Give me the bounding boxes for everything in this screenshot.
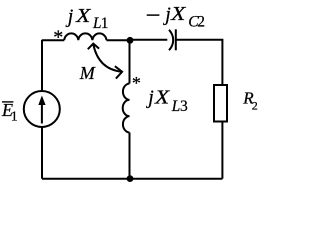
- polarity dot marker (asterisk) for L3: [132, 73, 141, 93]
- svg-text:M: M: [79, 63, 96, 83]
- label jXL3: [145, 87, 188, 116]
- inductor L1: [64, 33, 106, 40]
- mutual coupling arrow M: [88, 44, 122, 79]
- inductor L3: [123, 84, 130, 133]
- label E1: [1, 100, 18, 123]
- wire from capacitor to top-right corner and down to resistor: [176, 40, 223, 85]
- wire from top node down to L3: [129, 40, 131, 84]
- svg-text:X: X: [170, 3, 186, 25]
- svg-text:X: X: [154, 87, 170, 109]
- wire from L1 to top node: [107, 39, 131, 41]
- label jXL1: [65, 5, 109, 32]
- svg-text:3: 3: [180, 98, 188, 115]
- svg-text:*: *: [53, 26, 63, 48]
- capacitor C2: [169, 29, 176, 50]
- svg-text:2: 2: [197, 14, 205, 31]
- bottom wire: [42, 178, 222, 180]
- wire from resistor down to bottom-right corner: [221, 122, 223, 179]
- resistor R2: [214, 85, 227, 122]
- node junction top: [127, 37, 134, 44]
- svg-text:L: L: [171, 98, 180, 115]
- wire from top-left corner down to source: [41, 40, 43, 91]
- svg-text:*: *: [132, 73, 141, 93]
- voltage source E1: [24, 91, 60, 127]
- svg-text:1: 1: [101, 15, 109, 32]
- wire from source down to bottom-left corner: [41, 127, 43, 179]
- svg-text:2: 2: [252, 99, 258, 113]
- wire top-left segment: [42, 39, 64, 41]
- wire from top node to capacitor: [130, 39, 167, 41]
- label R2: [242, 89, 258, 113]
- label -jXC2: [147, 3, 205, 30]
- svg-text:X: X: [75, 5, 91, 27]
- polarity dot marker (asterisk) for L1: [53, 26, 63, 48]
- wire from L3 down to bottom node: [129, 133, 131, 179]
- label M: [79, 63, 96, 83]
- node junction bottom: [127, 175, 134, 182]
- svg-text:1: 1: [11, 108, 18, 123]
